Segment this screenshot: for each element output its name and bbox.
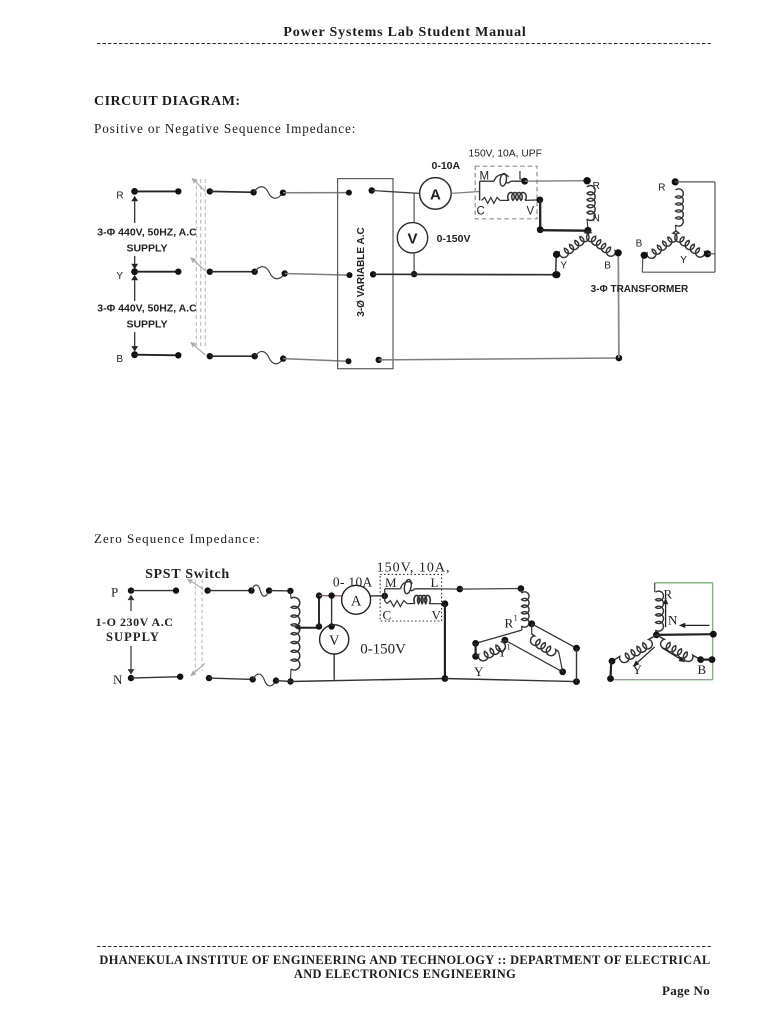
wire N fuse to rail bbox=[273, 677, 279, 683]
wire R fuse to variac box bbox=[280, 190, 352, 196]
fuse F3 B phase bbox=[255, 351, 284, 363]
wire secondary R to frame bbox=[675, 181, 715, 183]
wire Y fuse to variac box bbox=[282, 270, 353, 278]
svg-text:1: 1 bbox=[514, 613, 518, 623]
variac output dot Y bbox=[370, 271, 376, 277]
wattmeter W2 pressure coil bbox=[407, 595, 445, 603]
transformer T2 secondary Y terminal bbox=[680, 250, 711, 266]
variac T3 winding bbox=[290, 591, 299, 680]
svg-text:A: A bbox=[430, 186, 441, 203]
fuse F1 R phase bbox=[254, 187, 283, 198]
svg-text:C: C bbox=[383, 608, 392, 623]
wattmeter W1 pressure coil bbox=[500, 193, 540, 201]
green frame left stub bbox=[654, 583, 656, 592]
variac output dot R bbox=[369, 187, 375, 193]
svg-text:3-Φ 440V, 50HZ, A.C: 3-Φ 440V, 50HZ, A.C bbox=[97, 227, 197, 239]
svg-text:B: B bbox=[604, 261, 611, 272]
wire bottom rail bbox=[276, 675, 580, 685]
phasor arrow Y bbox=[633, 647, 655, 667]
wire secondary frame to B terminal bbox=[641, 258, 644, 273]
wattmeter W1 current coil bbox=[480, 173, 525, 186]
label 0-150V bbox=[437, 233, 471, 245]
svg-text:N: N bbox=[113, 672, 123, 687]
svg-text:R: R bbox=[116, 191, 123, 202]
transformer T5 star node bbox=[653, 632, 660, 639]
svg-text:0- 10A: 0- 10A bbox=[333, 575, 373, 590]
label 3-ph 440V supply 2 line1 bbox=[97, 303, 197, 315]
svg-text:3-Ø VARIABLE A.C: 3-Ø VARIABLE A.C bbox=[356, 227, 367, 316]
svg-text:N: N bbox=[593, 214, 600, 225]
wire Y rail riser bbox=[555, 256, 558, 275]
wire B1 diagonal to right tap bbox=[532, 624, 577, 648]
svg-text:SUPPLY: SUPPLY bbox=[106, 630, 160, 644]
node P supply terminal bbox=[111, 585, 134, 600]
wire wiper riser 1 bbox=[318, 596, 320, 627]
supply arrow up to R line bbox=[131, 196, 138, 223]
label Y terminal bbox=[474, 664, 484, 679]
wire R switch to fuse bbox=[207, 188, 257, 195]
footer dashed rule bbox=[97, 946, 713, 948]
wattmeter W2 terminal L label bbox=[431, 575, 439, 590]
svg-text:1-O 230V A.C: 1-O 230V A.C bbox=[95, 615, 173, 629]
transformer T4 Y1 winding bbox=[476, 640, 506, 661]
supply arrow up to Y line bbox=[131, 275, 138, 301]
svg-text:R: R bbox=[658, 183, 665, 194]
wattmeter W1 V node bbox=[536, 197, 543, 204]
wire B switch to fuse bbox=[207, 353, 258, 359]
wire wiper to risers bbox=[296, 623, 335, 629]
label 150V 10A UPF bbox=[469, 149, 542, 160]
node B supply terminal bbox=[116, 351, 138, 364]
wattmeter W2 terminal M label bbox=[385, 575, 397, 590]
switch S1 arrow Y pole bbox=[190, 257, 205, 271]
label T5 N bbox=[668, 613, 678, 628]
wattmeter W1 dashed box bbox=[475, 166, 537, 219]
wire voltmeter V2 to rail bbox=[333, 654, 335, 680]
svg-text:M: M bbox=[385, 575, 397, 590]
fuse F2 Y phase bbox=[255, 267, 285, 279]
label Y1 winding bbox=[498, 642, 511, 660]
transformer T5 R winding bbox=[656, 591, 664, 635]
wire secondary frame bottom bbox=[642, 271, 715, 273]
transformer T5 Y terminal bbox=[607, 658, 615, 682]
wattmeter W2 terminal V label bbox=[432, 608, 442, 623]
wattmeter W2 V node bbox=[442, 600, 449, 607]
svg-text:150V, 10A,: 150V, 10A, bbox=[377, 561, 451, 576]
switch S1 dashed blade 3 bbox=[204, 179, 206, 346]
label T5 B bbox=[698, 662, 707, 677]
svg-text:P: P bbox=[111, 585, 118, 600]
subheading positive/negative sequence bbox=[94, 121, 356, 137]
ammeter A2 0-10A bbox=[342, 585, 371, 614]
transformer T4 right tap bbox=[573, 645, 580, 682]
svg-text:0-150V: 0-150V bbox=[360, 642, 406, 658]
transformer T2 secondary R terminal bbox=[658, 178, 679, 193]
wattmeter W1 L node bbox=[521, 178, 528, 185]
label 1-ph 230V supply line1 bbox=[95, 615, 173, 629]
svg-text:0-150V: 0-150V bbox=[437, 233, 471, 245]
wire secondary frame right side bbox=[714, 182, 716, 272]
switch S1 dashed blade 1 bbox=[195, 179, 197, 346]
green frame right bbox=[712, 583, 714, 680]
svg-text:B: B bbox=[636, 239, 643, 250]
wattmeter W1 terminal C label bbox=[477, 206, 485, 218]
wattmeter W1 terminal L label bbox=[519, 171, 526, 183]
supply arrow down to N line bbox=[128, 646, 135, 675]
node N supply terminal bbox=[113, 672, 134, 687]
wire W2 L to transformer rail bbox=[442, 586, 521, 593]
wattmeter W2 M post bbox=[384, 589, 386, 601]
svg-text:150V, 10A, UPF: 150V, 10A, UPF bbox=[469, 149, 542, 160]
transformer T2 Y winding bbox=[557, 231, 590, 258]
footer institute line 2 bbox=[97, 967, 713, 982]
transformer T2 R terminal bbox=[583, 177, 599, 192]
wire B rail riser bbox=[617, 255, 620, 359]
transformer T4 B1 node bbox=[528, 620, 535, 627]
wire star to green right bbox=[656, 631, 716, 638]
wire ammeter to wattmeter W2 bbox=[371, 595, 385, 597]
label 3-ph VARIABLE A.C bbox=[356, 227, 367, 316]
transformer T4 left taps bbox=[472, 640, 479, 660]
transformer T5 B winding bbox=[656, 635, 700, 662]
svg-text:C: C bbox=[477, 206, 485, 218]
switch S1 dashed blade 2 bbox=[200, 179, 202, 346]
green frame bottom bbox=[610, 679, 713, 681]
supply arrow down to Y line bbox=[131, 256, 138, 269]
transformer T2 B terminal bbox=[604, 249, 622, 271]
wire Y rail to transformer bbox=[373, 271, 559, 278]
svg-text:V: V bbox=[329, 633, 340, 649]
variac output dot B bbox=[376, 357, 382, 363]
heading CIRCUIT DIAGRAM bbox=[94, 94, 241, 110]
label T5 Y bbox=[633, 662, 643, 677]
transformer T4 R1 winding bbox=[521, 589, 529, 631]
transformer T2 R winding bbox=[587, 186, 595, 229]
wire riser to ammeter bbox=[316, 592, 342, 598]
svg-text:L: L bbox=[431, 575, 439, 590]
svg-text:R: R bbox=[664, 587, 673, 602]
transformer T2 B winding bbox=[587, 231, 619, 257]
wire star to left tap bbox=[476, 630, 522, 643]
switch S1 arrow R pole bbox=[191, 178, 205, 192]
3-phase variac T1 box bbox=[338, 179, 393, 369]
svg-text:R: R bbox=[505, 616, 514, 631]
switch S2 dashed blade 1 bbox=[194, 580, 196, 672]
wire R source segment bbox=[135, 188, 182, 194]
wire Y switch to fuse bbox=[207, 269, 258, 275]
svg-text:A: A bbox=[351, 594, 362, 610]
wattmeter W1 resistor bbox=[482, 197, 501, 203]
wattmeter W1 M terminal post bbox=[479, 181, 481, 200]
label 3-ph 440V supply 1 line1 bbox=[97, 227, 197, 239]
wire N switch segment bbox=[206, 675, 256, 683]
variac T3 wiper arrow bbox=[294, 624, 310, 630]
supply arrow down to B line bbox=[131, 332, 138, 352]
label R1 winding bbox=[505, 613, 518, 631]
transformer T2 secondary B winding bbox=[644, 231, 677, 258]
switch S2 arrow top bbox=[187, 579, 204, 590]
label T5 R bbox=[664, 587, 673, 602]
svg-text:N: N bbox=[668, 613, 678, 628]
svg-text:Y: Y bbox=[560, 261, 567, 272]
transformer T2 secondary Y winding bbox=[675, 231, 708, 257]
label N star point bbox=[593, 214, 600, 225]
node Y supply terminal bbox=[116, 268, 138, 281]
transformer T4 Y1 node bbox=[502, 637, 509, 644]
node R supply terminal bbox=[116, 188, 138, 202]
wattmeter W2 terminal C label bbox=[383, 608, 392, 623]
wattmeter W2 dotted box bbox=[380, 574, 441, 621]
wire secondary Y to frame bbox=[708, 253, 716, 255]
transformer T4 B1 winding bbox=[530, 624, 562, 672]
wire W1 V to star N bbox=[540, 229, 588, 232]
label 3-ph TRANSFORMER bbox=[591, 284, 689, 295]
footer institute line 1 bbox=[97, 953, 713, 968]
wattmeter W1 terminal V label bbox=[527, 206, 535, 218]
wattmeter W2 current coil bbox=[385, 579, 442, 594]
svg-text:V: V bbox=[432, 608, 442, 623]
wattmeter W2 M node bbox=[381, 593, 388, 600]
wire variac to ammeter bbox=[372, 191, 420, 194]
label 150V 10A, bbox=[377, 561, 451, 576]
svg-text:B: B bbox=[116, 354, 123, 365]
wire N source segment bbox=[131, 674, 183, 680]
label 3-ph 440V supply 1 line2 bbox=[126, 243, 167, 255]
variac T3 input node bbox=[287, 588, 293, 594]
fuse F4 phase bbox=[251, 585, 269, 596]
wire W2 V down to rail bbox=[444, 604, 446, 679]
transformer T2 secondary B terminal bbox=[636, 239, 648, 259]
phasor arrow R up bbox=[663, 598, 668, 628]
switch S2 arrow bottom bbox=[190, 663, 205, 676]
wire W1 L to transformer R bbox=[525, 180, 587, 183]
fuse F5 neutral bbox=[253, 674, 276, 686]
wire P switch to fuse bbox=[204, 587, 254, 593]
wire P fuse to variac bbox=[266, 587, 291, 593]
svg-text:0-10A: 0-10A bbox=[432, 160, 461, 172]
svg-text:Y: Y bbox=[474, 664, 484, 679]
wire Y source segment bbox=[135, 269, 182, 275]
supply arrow up to P line bbox=[128, 595, 135, 611]
wire P source segment bbox=[131, 587, 179, 593]
svg-text:SUPPLY: SUPPLY bbox=[126, 243, 167, 255]
page title bbox=[97, 25, 713, 41]
svg-text:V: V bbox=[527, 206, 535, 218]
ammeter A1 0-10A bbox=[420, 178, 452, 210]
variac T3 bottom node bbox=[287, 678, 293, 684]
transformer T5 Y winding bbox=[612, 635, 656, 663]
svg-text:SUPPLY: SUPPLY bbox=[126, 319, 167, 331]
label 1-ph 230V supply line2 bbox=[106, 630, 160, 644]
label 3-ph 440V supply 2 line2 bbox=[126, 319, 167, 331]
wire B source segment bbox=[135, 352, 182, 358]
green frame top bbox=[655, 582, 713, 584]
voltmeter V1 0-150V bbox=[397, 223, 427, 253]
wire B fuse to variac box bbox=[280, 355, 352, 364]
footer page no bbox=[560, 983, 710, 999]
svg-text:V: V bbox=[407, 231, 417, 248]
wire voltmeter V1 to Y rail bbox=[411, 253, 417, 277]
label 0-150V meter2 bbox=[360, 642, 406, 658]
wattmeter W2 resistor bbox=[385, 601, 407, 607]
transformer T2 star node N bbox=[584, 227, 591, 234]
svg-text:3-Φ TRANSFORMER: 3-Φ TRANSFORMER bbox=[591, 284, 689, 295]
svg-text:Y: Y bbox=[116, 271, 123, 282]
transformer T4 R1 node bbox=[518, 585, 525, 592]
switch S1 arrow B pole bbox=[190, 342, 205, 355]
wire R to voltmeter V1 bbox=[413, 193, 415, 222]
svg-text:Y: Y bbox=[680, 255, 687, 266]
wire ammeter to wattmeter M bbox=[451, 192, 479, 194]
label 0-10A bbox=[432, 160, 461, 172]
voltmeter V2 0-150V bbox=[320, 625, 349, 654]
label SPST Switch bbox=[145, 567, 230, 582]
phasor arrow B bbox=[662, 648, 685, 662]
transformer T2 secondary R winding bbox=[676, 189, 684, 231]
transformer T5 B terminal bbox=[697, 656, 715, 663]
subheading zero sequence bbox=[94, 531, 261, 547]
phasor arrow N left bbox=[679, 623, 710, 628]
svg-text:Y: Y bbox=[633, 662, 643, 677]
svg-text:B: B bbox=[698, 662, 707, 677]
wattmeter W1 terminal M label bbox=[480, 171, 490, 183]
transformer T2 Y terminal bbox=[553, 251, 568, 279]
svg-text:3-Φ 440V, 50HZ, A.C: 3-Φ 440V, 50HZ, A.C bbox=[97, 303, 197, 315]
top header dashed rule bbox=[97, 43, 713, 45]
switch S2 dashed blade 2 bbox=[201, 580, 203, 672]
wire wiper riser 2 bbox=[331, 596, 333, 625]
wire W1 V down bbox=[537, 200, 544, 233]
label 0- 10A bbox=[333, 575, 373, 590]
wire B rail to transformer bbox=[379, 355, 623, 362]
wire Y1 to far diagonal bbox=[505, 640, 566, 675]
